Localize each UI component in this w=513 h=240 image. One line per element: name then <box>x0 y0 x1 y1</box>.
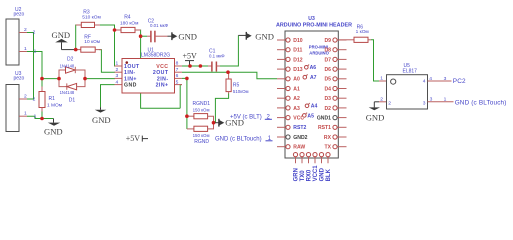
svg-text:GND: GND <box>178 31 197 41</box>
svg-text:D7: D7 <box>324 57 331 63</box>
svg-text:GND (c BLTouch): GND (c BLTouch) <box>455 100 507 107</box>
svg-text:GRN: GRN <box>294 168 300 181</box>
wire U1 pin8 to C1 <box>182 65 209 67</box>
supply flag GND at divider <box>214 118 244 128</box>
svg-text:2OUT: 2OUT <box>153 70 169 76</box>
svg-text:2: 2 <box>380 96 383 102</box>
svg-text:U3: U3 <box>308 16 315 22</box>
svg-text:0.01 мкФ: 0.01 мкФ <box>150 23 169 28</box>
supply +5V flag bottom left <box>126 134 148 143</box>
svg-text:3: 3 <box>423 101 426 107</box>
net label GND (c BLTouch) left <box>215 136 273 143</box>
svg-text:GND: GND <box>366 112 385 122</box>
svg-text:A6: A6 <box>310 65 317 71</box>
svg-text:D2: D2 <box>324 106 331 112</box>
svg-text:D13: D13 <box>293 67 303 73</box>
wire diode row left <box>42 78 59 80</box>
svg-text:A2: A2 <box>293 96 300 102</box>
svg-text:R5: R5 <box>233 83 240 89</box>
resistor R5 <box>226 72 249 94</box>
svg-text:D11: D11 <box>293 48 302 54</box>
svg-text:D10: D10 <box>293 38 303 44</box>
svg-text:1: 1 <box>34 49 37 55</box>
svg-text:GND: GND <box>124 83 137 89</box>
svg-text:6: 6 <box>176 73 179 79</box>
svg-text:510кОм: 510кОм <box>233 89 249 94</box>
wire R6 right down to U5 pin1 <box>371 40 379 81</box>
arduino inner pins A4-A7 <box>303 65 318 120</box>
svg-text:PC2: PC2 <box>453 78 466 85</box>
svg-text:1: 1 <box>34 113 37 119</box>
supply flag GND after C2 <box>155 31 197 41</box>
svg-text:GND: GND <box>255 31 274 41</box>
wire U1 pin5 to lower net <box>180 85 182 109</box>
wire GND stem to node <box>62 49 76 51</box>
ground top-left <box>52 30 71 50</box>
arduino pro-mini header U3 <box>276 16 352 158</box>
svg-text:D4: D4 <box>324 86 331 92</box>
wire R4 right down to sensor net <box>139 30 141 36</box>
net label PC2 <box>453 78 466 85</box>
svg-text:1 кОм: 1 кОм <box>356 29 369 35</box>
svg-text:A3: A3 <box>293 106 300 112</box>
svg-text:D12: D12 <box>293 57 303 63</box>
svg-text:D9: D9 <box>324 38 331 44</box>
svg-text:D2: D2 <box>67 57 74 63</box>
svg-text:1IN+: 1IN+ <box>124 76 137 82</box>
optocoupler U5 EL817 <box>379 63 447 109</box>
svg-text:2: 2 <box>33 96 36 102</box>
supply flag GND top right <box>246 31 274 41</box>
resistor R3 <box>76 9 101 27</box>
capacitor C1 <box>208 49 225 72</box>
wire into top GND flag <box>238 34 246 36</box>
svg-text:0.1 мкФ: 0.1 мкФ <box>209 54 225 59</box>
svg-text:1IN-: 1IN- <box>124 70 136 76</box>
svg-text:10 кОм: 10 кОм <box>84 39 100 45</box>
svg-text:ARDUINO PRO-MINI HEADER: ARDUINO PRO-MINI HEADER <box>276 23 352 29</box>
svg-text:D3: D3 <box>324 96 331 102</box>
svg-text:RST1: RST1 <box>318 125 331 131</box>
svg-text:A4: A4 <box>311 103 318 109</box>
resistor RGND1 <box>187 101 214 123</box>
svg-text:GND1: GND1 <box>317 116 331 122</box>
wire RF right to U1 pin2 <box>99 50 115 73</box>
svg-text:2IN+: 2IN+ <box>156 83 169 89</box>
svg-text:2: 2 <box>116 67 119 73</box>
svg-text:150 кОм: 150 кОм <box>193 108 210 113</box>
junction dots <box>40 28 230 124</box>
ground at U1 pin4 <box>92 107 111 125</box>
diode D1 1N4148 <box>59 79 85 104</box>
svg-text:1: 1 <box>380 76 383 82</box>
wire U1 pin7 to A0 <box>182 72 277 79</box>
svg-text:2: 2 <box>24 94 27 100</box>
wire R1 bottom <box>41 112 43 119</box>
svg-text:3: 3 <box>116 73 119 79</box>
svg-text:VCC1: VCC1 <box>313 165 319 182</box>
wire U1 pin4 to ground rail <box>101 85 115 108</box>
svg-text:+5V: +5V <box>126 134 141 143</box>
svg-text:8: 8 <box>176 61 179 67</box>
svg-text:A0: A0 <box>293 77 300 83</box>
svg-text:5: 5 <box>176 79 179 85</box>
svg-text:4: 4 <box>116 79 119 85</box>
svg-text:2: 2 <box>33 30 36 36</box>
svg-text:EL817: EL817 <box>403 68 418 74</box>
svg-text:A5: A5 <box>307 113 314 119</box>
svg-text:1: 1 <box>24 46 27 52</box>
svg-text:RX0: RX0 <box>307 169 313 181</box>
svg-text:150 кОм: 150 кОм <box>193 133 210 138</box>
capacitor C2 <box>147 18 169 42</box>
wire C1 right to GND flag <box>219 35 238 66</box>
svg-text:1 МОм: 1 МОм <box>47 103 62 109</box>
svg-text:TX: TX <box>324 145 331 151</box>
piezo U2 <box>6 7 37 65</box>
arduino left pins <box>277 38 308 151</box>
svg-text:RX: RX <box>324 135 332 141</box>
arduino right pins <box>317 38 347 151</box>
svg-text:RGND: RGND <box>194 139 209 145</box>
wire pass-through net R4/C2 to below U1 <box>141 36 181 108</box>
svg-text:1OUT: 1OUT <box>124 64 140 70</box>
svg-text:7: 7 <box>176 67 179 73</box>
svg-text:VCC: VCC <box>156 64 168 70</box>
svg-text:pezo: pezo <box>14 75 25 81</box>
arduino bottom pins <box>293 153 332 182</box>
svg-text:1: 1 <box>116 61 119 67</box>
svg-text:GND2: GND2 <box>293 135 307 141</box>
diode D2 1N4148 <box>59 57 85 79</box>
wire U2.1 down to diode node <box>27 52 42 87</box>
wire R3/RF left vertical node <box>76 25 78 50</box>
resistor R1 <box>39 87 62 112</box>
svg-text:RST2: RST2 <box>293 125 306 131</box>
svg-text:R1: R1 <box>49 96 56 102</box>
op-amp U1 LM358DR2G <box>115 48 183 94</box>
svg-text:2: 2 <box>388 101 391 107</box>
svg-text:1: 1 <box>24 111 27 117</box>
svg-text:D1: D1 <box>69 98 76 104</box>
svg-text:BLK: BLK <box>326 168 332 181</box>
svg-text:RAW: RAW <box>293 145 305 151</box>
svg-text:D5: D5 <box>324 77 331 83</box>
supply +5V flag near U1 <box>183 51 198 66</box>
wire R3 right to R4 left <box>98 25 115 66</box>
svg-text:A7: A7 <box>310 75 317 81</box>
svg-text:D8: D8 <box>324 48 331 54</box>
wire diode row right to U1 pin3 <box>85 78 115 80</box>
resistor R6 <box>338 24 371 42</box>
svg-text:LM358DR2G: LM358DR2G <box>141 53 170 59</box>
resistor R4 <box>115 15 141 33</box>
svg-text:GND: GND <box>92 115 111 125</box>
svg-text:R4: R4 <box>124 15 131 21</box>
net label +5V (c BLT) <box>230 114 272 120</box>
resistor RGND <box>187 123 214 145</box>
svg-text:180 кОм: 180 кОм <box>120 20 138 26</box>
svg-text:pezo: pezo <box>14 12 25 18</box>
svg-text:1N4148: 1N4148 <box>60 63 75 68</box>
svg-text:+5V (c BLT): +5V (c BLT) <box>230 115 262 121</box>
ground bottom-left <box>44 119 63 137</box>
svg-text:4: 4 <box>423 79 426 85</box>
svg-text:GND: GND <box>52 30 71 40</box>
net label GND (c BLTouch) right <box>455 100 507 107</box>
svg-text:GND (c BLTouch): GND (c BLTouch) <box>215 137 262 143</box>
svg-text:A1: A1 <box>293 86 300 92</box>
resistor RF <box>76 34 102 52</box>
wire U5 pin3 to GND label <box>428 101 454 103</box>
wire U3.1 to ground rail <box>27 116 54 118</box>
wire U1 pin6 to divider <box>182 78 187 129</box>
svg-text:1N4148: 1N4148 <box>60 90 75 95</box>
piezo U3 <box>6 71 37 132</box>
svg-text:510 кОм: 510 кОм <box>82 14 100 20</box>
svg-text:RGND1: RGND1 <box>193 101 211 107</box>
svg-text:2IN-: 2IN- <box>157 76 169 82</box>
svg-text:GND: GND <box>320 167 326 181</box>
ground at U5 pin2 <box>366 102 385 123</box>
svg-text:D6: D6 <box>324 67 331 73</box>
wire R5 bottom to ground <box>214 94 229 123</box>
wire U5 pin4 to PC2 <box>428 80 452 82</box>
wire C2 left <box>141 35 147 37</box>
wire U2.2 to U3.2 vertical <box>27 33 34 100</box>
svg-text:GND: GND <box>44 127 63 137</box>
svg-text:2: 2 <box>24 27 27 33</box>
svg-text:+5V: +5V <box>183 51 198 60</box>
svg-text:TX0: TX0 <box>300 170 306 182</box>
